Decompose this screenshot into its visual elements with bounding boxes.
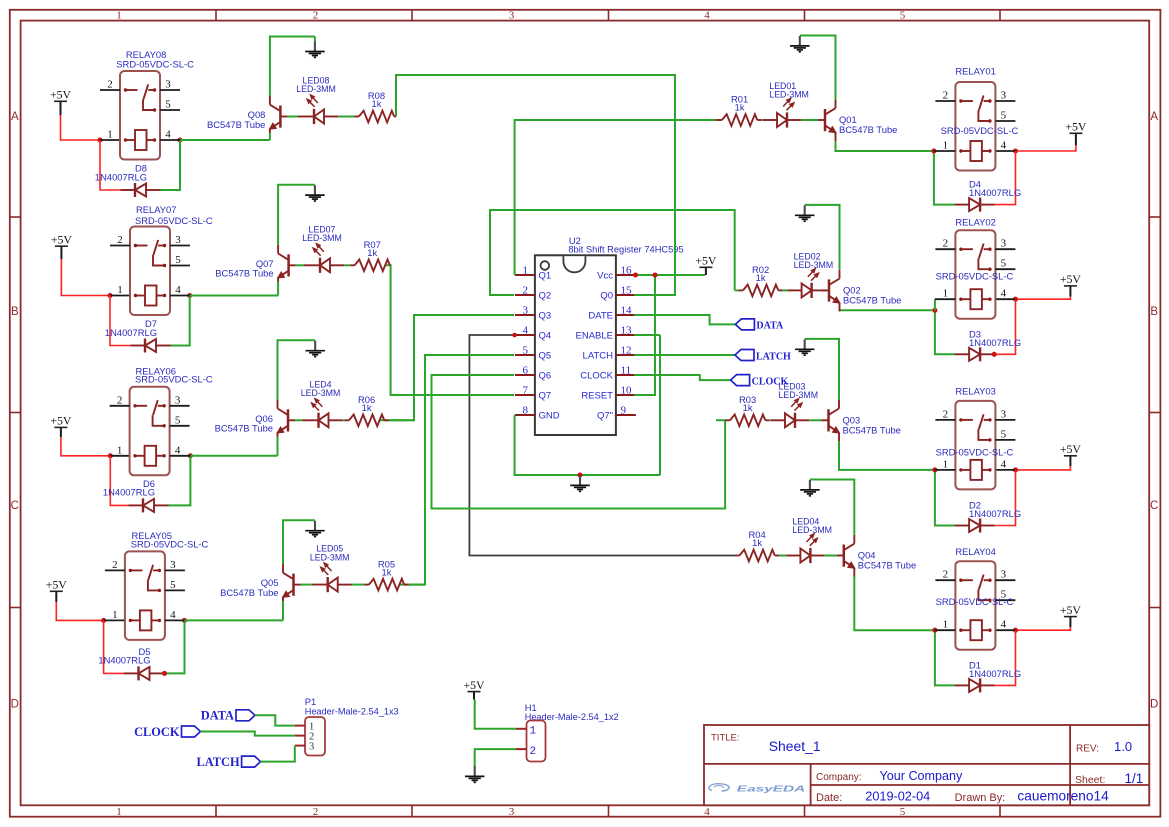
svg-text:1N4007RLG: 1N4007RLG [969,668,1021,679]
svg-text:3: 3 [509,806,515,818]
svg-text:16: 16 [621,264,633,276]
svg-text:4: 4 [704,806,710,818]
svg-text:2: 2 [107,79,113,91]
svg-text:SRD-05VDC-SL-C: SRD-05VDC-SL-C [116,59,194,70]
svg-text:Date:: Date: [816,792,842,804]
svg-text:4: 4 [523,324,529,336]
svg-text:A: A [1150,111,1158,123]
svg-text:1k: 1k [752,537,762,548]
svg-text:DATA: DATA [756,321,784,332]
svg-text:1: 1 [530,725,537,737]
svg-text:1N4007RLG: 1N4007RLG [105,327,157,338]
svg-text:1: 1 [943,288,949,300]
svg-text:1: 1 [943,458,949,470]
svg-text:LED-3MM: LED-3MM [301,388,341,398]
svg-text:3: 3 [1001,408,1007,420]
svg-text:LED-3MM: LED-3MM [794,260,834,270]
svg-text:BC547B Tube: BC547B Tube [843,424,901,435]
svg-text:RELAY01: RELAY01 [955,66,995,77]
svg-text:15: 15 [621,284,633,296]
svg-text:+5V: +5V [46,578,68,592]
svg-text:1k: 1k [372,98,382,109]
svg-text:Q4: Q4 [539,331,552,342]
svg-text:LATCH: LATCH [196,755,240,769]
svg-text:2: 2 [943,90,949,102]
svg-text:Q6: Q6 [539,371,552,382]
svg-text:BC547B Tube: BC547B Tube [215,423,273,434]
svg-text:RELAY07: RELAY07 [136,204,176,215]
svg-text:4: 4 [175,284,181,296]
svg-text:A: A [11,111,19,123]
svg-text:3: 3 [175,234,181,246]
svg-text:Q5: Q5 [539,351,552,362]
svg-text:1: 1 [116,10,122,22]
svg-text:10: 10 [621,384,633,396]
svg-text:BC547B Tube: BC547B Tube [207,119,265,130]
svg-text:C: C [11,500,19,512]
svg-text:Your Company: Your Company [880,769,964,783]
svg-text:SRD-05VDC-SL-C: SRD-05VDC-SL-C [941,125,1019,136]
svg-text:SRD-05VDC-SL-C: SRD-05VDC-SL-C [936,270,1014,281]
svg-text:4: 4 [1001,619,1007,631]
svg-text:+5V: +5V [1060,442,1082,456]
svg-text:3: 3 [509,10,515,22]
svg-text:1: 1 [112,609,118,621]
svg-text:CLOCK: CLOCK [134,725,180,739]
svg-text:RELAY02: RELAY02 [955,217,995,228]
svg-text:LED-3MM: LED-3MM [302,233,342,243]
svg-text:1k: 1k [756,272,766,283]
svg-text:1k: 1k [382,566,392,577]
svg-text:1N4007RLG: 1N4007RLG [969,337,1021,348]
svg-text:Sheet_1: Sheet_1 [769,738,821,754]
svg-text:BC547B Tube: BC547B Tube [843,294,901,305]
svg-text:1: 1 [116,806,122,818]
svg-text:1: 1 [943,140,949,152]
svg-text:1: 1 [523,264,529,276]
svg-text:2: 2 [523,284,529,296]
svg-text:Company:: Company: [816,772,862,783]
svg-text:LED-3MM: LED-3MM [769,90,809,100]
svg-text:13: 13 [621,324,633,336]
svg-text:Q3: Q3 [539,311,552,322]
svg-text:Sheet:: Sheet: [1075,774,1105,786]
svg-text:9: 9 [621,404,627,416]
svg-text:1: 1 [117,444,123,456]
svg-text:3: 3 [165,79,171,91]
svg-text:1N4007RLG: 1N4007RLG [969,187,1021,198]
svg-text:+5V: +5V [1060,272,1082,286]
svg-text:3: 3 [309,741,314,752]
svg-text:1k: 1k [367,247,377,258]
svg-text:5: 5 [1001,110,1007,122]
svg-text:BC547B Tube: BC547B Tube [215,268,273,279]
svg-text:B: B [1150,306,1158,318]
svg-text:Q2: Q2 [539,291,552,302]
svg-text:TITLE:: TITLE: [711,733,740,744]
svg-text:D: D [11,699,19,711]
svg-text:4: 4 [1001,140,1007,152]
svg-text:1: 1 [107,129,113,141]
svg-text:D: D [1150,699,1158,711]
svg-text:SRD-05VDC-SL-C: SRD-05VDC-SL-C [135,374,213,385]
svg-text:REV:: REV: [1076,744,1099,755]
svg-text:RESET: RESET [581,391,613,402]
svg-text:4: 4 [175,444,181,456]
svg-text:1N4007RLG: 1N4007RLG [95,171,147,182]
svg-text:11: 11 [621,364,632,376]
svg-text:1k: 1k [735,102,745,113]
svg-text:1N4007RLG: 1N4007RLG [103,487,155,498]
svg-text:2: 2 [117,234,123,246]
svg-text:3: 3 [175,394,181,406]
svg-text:1: 1 [943,619,949,631]
svg-text:5: 5 [175,254,181,266]
svg-text:Q7: Q7 [539,391,552,402]
svg-text:DATE: DATE [588,311,613,322]
svg-text:+5V: +5V [1065,120,1087,134]
svg-text:3: 3 [170,559,176,571]
svg-text:SRD-05VDC-SL-C: SRD-05VDC-SL-C [135,215,213,226]
svg-text:1/1: 1/1 [1125,771,1144,786]
svg-text:6: 6 [523,364,529,376]
svg-text:2: 2 [530,746,537,758]
svg-text:Q1: Q1 [539,271,552,282]
svg-text:SRD-05VDC-SL-C: SRD-05VDC-SL-C [936,447,1014,458]
svg-text:14: 14 [621,304,633,316]
svg-text:ENABLE: ENABLE [576,331,614,342]
svg-text:2: 2 [943,408,949,420]
svg-text:5: 5 [175,414,181,426]
svg-text:Header-Male-2.54_1x3: Header-Male-2.54_1x3 [305,706,399,716]
svg-text:1.0: 1.0 [1114,739,1132,754]
svg-text:5: 5 [900,10,906,22]
svg-text:5: 5 [900,806,906,818]
svg-text:2019-02-04: 2019-02-04 [865,790,930,804]
svg-text:2: 2 [313,806,319,818]
svg-text:5: 5 [1001,258,1007,270]
svg-text:4: 4 [170,609,176,621]
svg-text:+5V: +5V [51,232,73,246]
svg-text:BC547B Tube: BC547B Tube [839,124,897,135]
svg-text:7: 7 [523,384,529,396]
svg-text:RELAY03: RELAY03 [955,386,995,397]
svg-text:1k: 1k [743,402,753,413]
svg-text:BC547B Tube: BC547B Tube [220,587,278,598]
svg-text:+5V: +5V [1060,603,1082,617]
svg-text:+5V: +5V [50,414,72,428]
svg-text:GND: GND [539,411,560,422]
svg-text:Q7": Q7" [597,411,613,422]
svg-text:12: 12 [621,344,632,356]
svg-text:LED-3MM: LED-3MM [310,552,350,562]
svg-text:3: 3 [523,304,529,316]
svg-text:5: 5 [523,344,529,356]
svg-text:B: B [11,306,19,318]
svg-text:DATA: DATA [201,709,234,723]
svg-text:cauemoreno14: cauemoreno14 [1017,789,1109,804]
svg-text:8: 8 [523,404,529,416]
svg-text:3: 3 [1001,569,1007,581]
svg-text:CLOCK: CLOCK [580,371,613,382]
svg-text:1N4007RLG: 1N4007RLG [969,508,1021,519]
svg-text:4: 4 [1001,458,1007,470]
svg-text:LED-3MM: LED-3MM [779,390,819,400]
svg-text:C: C [1150,500,1158,512]
svg-text:2: 2 [943,238,949,250]
svg-text:2: 2 [117,394,123,406]
svg-text:LED-3MM: LED-3MM [296,84,336,94]
svg-text:4: 4 [165,129,171,141]
svg-text:4: 4 [1001,288,1007,300]
svg-text:3: 3 [1001,90,1007,102]
svg-text:5: 5 [170,579,176,591]
svg-text:+5V: +5V [695,254,717,268]
svg-text:1N4007RLG: 1N4007RLG [98,655,150,666]
svg-text:5: 5 [165,99,171,111]
svg-text:LED-3MM: LED-3MM [792,525,832,535]
svg-text:4: 4 [704,10,710,22]
svg-text:LATCH: LATCH [756,351,791,362]
svg-text:1k: 1k [362,402,372,413]
svg-text:2: 2 [943,569,949,581]
svg-text:2: 2 [313,10,319,22]
svg-text:BC547B Tube: BC547B Tube [858,560,916,571]
svg-text:SRD-05VDC-SL-C: SRD-05VDC-SL-C [131,538,209,549]
svg-text:1: 1 [117,284,123,296]
svg-text:LATCH: LATCH [583,351,614,362]
svg-text:RELAY04: RELAY04 [955,546,995,557]
svg-text:EasyEDA: EasyEDA [737,783,806,793]
svg-text:+5V: +5V [50,88,72,102]
svg-text:8bit Shift Register 74HC595: 8bit Shift Register 74HC595 [568,245,683,255]
svg-text:3: 3 [1001,238,1007,250]
svg-text:2: 2 [112,559,118,571]
svg-text:Drawn By:: Drawn By: [955,792,1006,804]
svg-text:SRD-05VDC-SL-C: SRD-05VDC-SL-C [936,596,1014,607]
svg-text:Q0: Q0 [600,291,613,302]
svg-text:Vcc: Vcc [597,271,613,282]
svg-text:5: 5 [1001,428,1007,440]
svg-text:+5V: +5V [463,678,485,692]
